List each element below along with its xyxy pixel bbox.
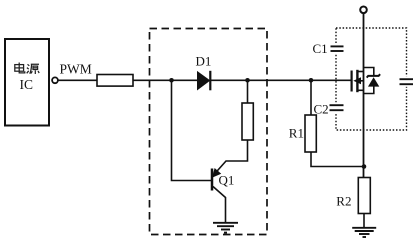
wire: diode to MOSFET gate (210, 79, 351, 81)
svg-text:C1: C1 (313, 41, 328, 56)
wire: junction down to base (172, 80, 212, 180)
node junction: gate node (309, 78, 314, 83)
capacitor C2 (gate-source, on dotted edge) (328, 102, 344, 113)
PWM output terminal circle (52, 77, 58, 83)
wire: gate node down to R1 (310, 80, 312, 115)
transistor Q1 (PNP) emitter arrow (213, 169, 221, 177)
wire: junction down to base resistor (247, 80, 249, 103)
capacitor C1 (gate-drain, on dotted edge) (329, 44, 344, 55)
resistor R2 (358, 178, 370, 214)
node junction: base branch (169, 78, 174, 83)
diode D1 (198, 71, 211, 91)
svg-text:D1: D1 (196, 53, 212, 68)
wire: R1 bottom to source node (311, 152, 364, 167)
svg-text:Q1: Q1 (219, 173, 235, 188)
wire: R2 to ground (363, 214, 365, 228)
ground (Q1 collector) (213, 223, 238, 233)
node junction: base resistor branch (245, 78, 250, 83)
resistor (base pull, vertical in dashed box) (242, 103, 253, 140)
wire: terminal to series resistor (58, 79, 97, 81)
wire: drain line down through box to source node (363, 13, 365, 178)
body diode (zener-style) of MOSFET (364, 68, 381, 94)
resistor (series gate resistor, horizontal) (97, 75, 133, 87)
power IC box U (电源 IC) (5, 39, 49, 126)
svg-text:IC: IC (20, 77, 34, 92)
label 电源 (glyph strokes) (15, 63, 39, 75)
MOSFET Q (N-channel) (352, 70, 364, 92)
wire: resistor to Q1 emitter (214, 140, 248, 175)
dotted box (MOSFET with parasitic capacitances) (336, 28, 407, 130)
terminal circle (drain, top) (360, 7, 367, 14)
ground (R2 / source) (352, 228, 376, 237)
dashed box (accelerated turn-off drive circuit) (150, 29, 268, 235)
wire: resistor to diode D1 (133, 79, 198, 81)
capacitor (drain-source, on right dotted edge) (398, 76, 414, 87)
svg-text:R2: R2 (336, 193, 351, 208)
svg-text:R1: R1 (289, 125, 304, 140)
svg-text:PWM: PWM (60, 62, 92, 77)
resistor R1 (305, 115, 316, 152)
transistor Q1 base bar (211, 169, 214, 191)
transistor Q1 collector (213, 187, 226, 223)
svg-text:C2: C2 (314, 101, 329, 116)
node junction: source node (362, 164, 367, 169)
MOSFET body arrow (353, 77, 361, 84)
